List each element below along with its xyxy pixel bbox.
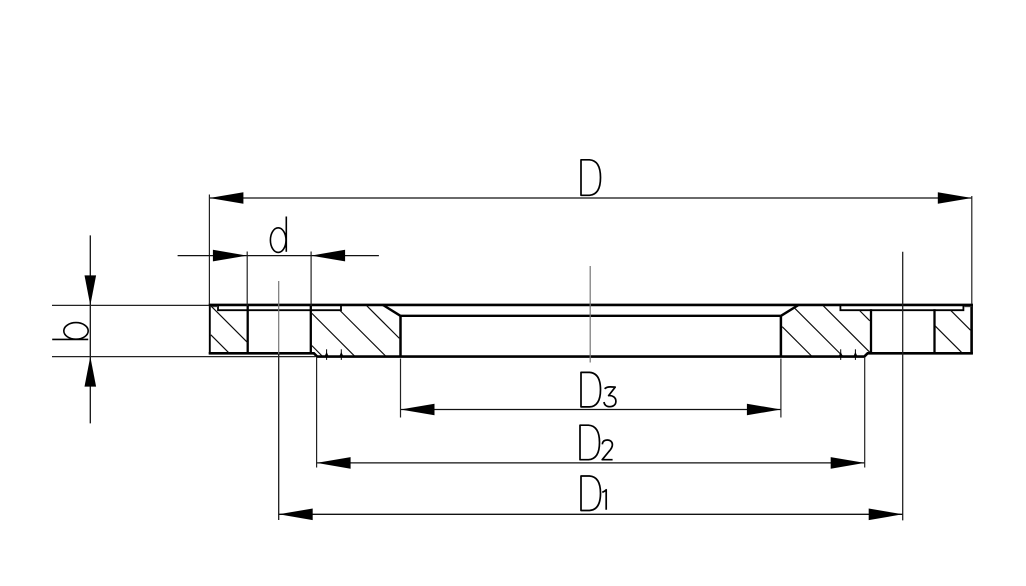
flange top edge: [209, 304, 973, 307]
dimension d extension right: [310, 252, 312, 307]
dimension D2 extension left: [316, 357, 318, 468]
label D2: [580, 425, 613, 460]
dimension D2 extension right: [864, 357, 866, 468]
dimension D line: [209, 197, 971, 199]
dimension D arrow left: [209, 192, 243, 204]
dimension D1 arrow right: [869, 509, 903, 521]
bolt hole left inner wall: [310, 306, 312, 355]
tick mark 4: [853, 349, 857, 360]
dimension D1 line: [279, 513, 903, 515]
dimension D2 arrow left: [317, 457, 351, 469]
dimension d arrow right: [311, 250, 345, 262]
tick mark 1: [325, 349, 329, 360]
dimension D arrow right: [938, 192, 972, 204]
hatch right rim: [935, 310, 971, 352]
dimension D extension left: [208, 195, 210, 305]
dimension D2 arrow right: [831, 457, 865, 469]
label D1: [581, 476, 606, 511]
bore floor line: [401, 315, 781, 317]
dimension d extension left: [246, 252, 248, 307]
dimension b extension bottom: [52, 356, 316, 358]
dimension d arrow left: [213, 250, 247, 262]
dimension D2 line: [317, 462, 865, 464]
hatch mid-left block: [312, 306, 400, 356]
dimension D3 arrow right: [747, 404, 781, 416]
dimension D1 arrow left: [279, 509, 313, 521]
dimension b arrow top: [85, 275, 97, 305]
bolt hole right outer wall: [933, 309, 935, 354]
hatch left rim: [211, 306, 248, 354]
label d: [270, 217, 286, 253]
label b (rotated): [52, 323, 88, 340]
dimension d line: [178, 255, 379, 257]
drawing centerline: [589, 266, 591, 363]
dimension b line: [89, 235, 91, 423]
tick mark 2: [339, 349, 343, 360]
recess ledge line right: [840, 306, 963, 311]
flange right edge: [970, 304, 973, 354]
dimension b arrow bottom: [85, 357, 97, 387]
bolt hole left outer wall: [247, 306, 249, 355]
flange bottom edge with raised-face jogs: [209, 353, 973, 356]
dimension D3 line: [401, 409, 781, 411]
corner face line right: [964, 306, 971, 308]
flange left edge: [209, 304, 211, 354]
bore chamfer left: [383, 305, 400, 316]
dimension D3 extension right: [780, 359, 782, 418]
bolt centerline right / dimension D1 extension right: [902, 252, 904, 521]
dimension b extension top: [52, 304, 209, 306]
bolt centerline left: [278, 281, 280, 354]
corner face line left: [210, 306, 218, 308]
bolt hole right inner wall: [870, 309, 872, 354]
dimension D3 arrow left: [401, 404, 435, 416]
hatch mid-right block: [782, 306, 870, 357]
tick mark 3: [839, 349, 843, 360]
dimension D1 extension left: [278, 354, 280, 520]
bore left wall: [399, 315, 402, 357]
dimension D3 extension left: [400, 359, 402, 418]
bore chamfer right: [781, 305, 799, 316]
recess ledge line left: [218, 306, 341, 311]
bore right wall: [780, 315, 783, 357]
dimension D extension right: [971, 196, 973, 304]
label D: [581, 160, 601, 196]
label D3: [581, 372, 616, 407]
